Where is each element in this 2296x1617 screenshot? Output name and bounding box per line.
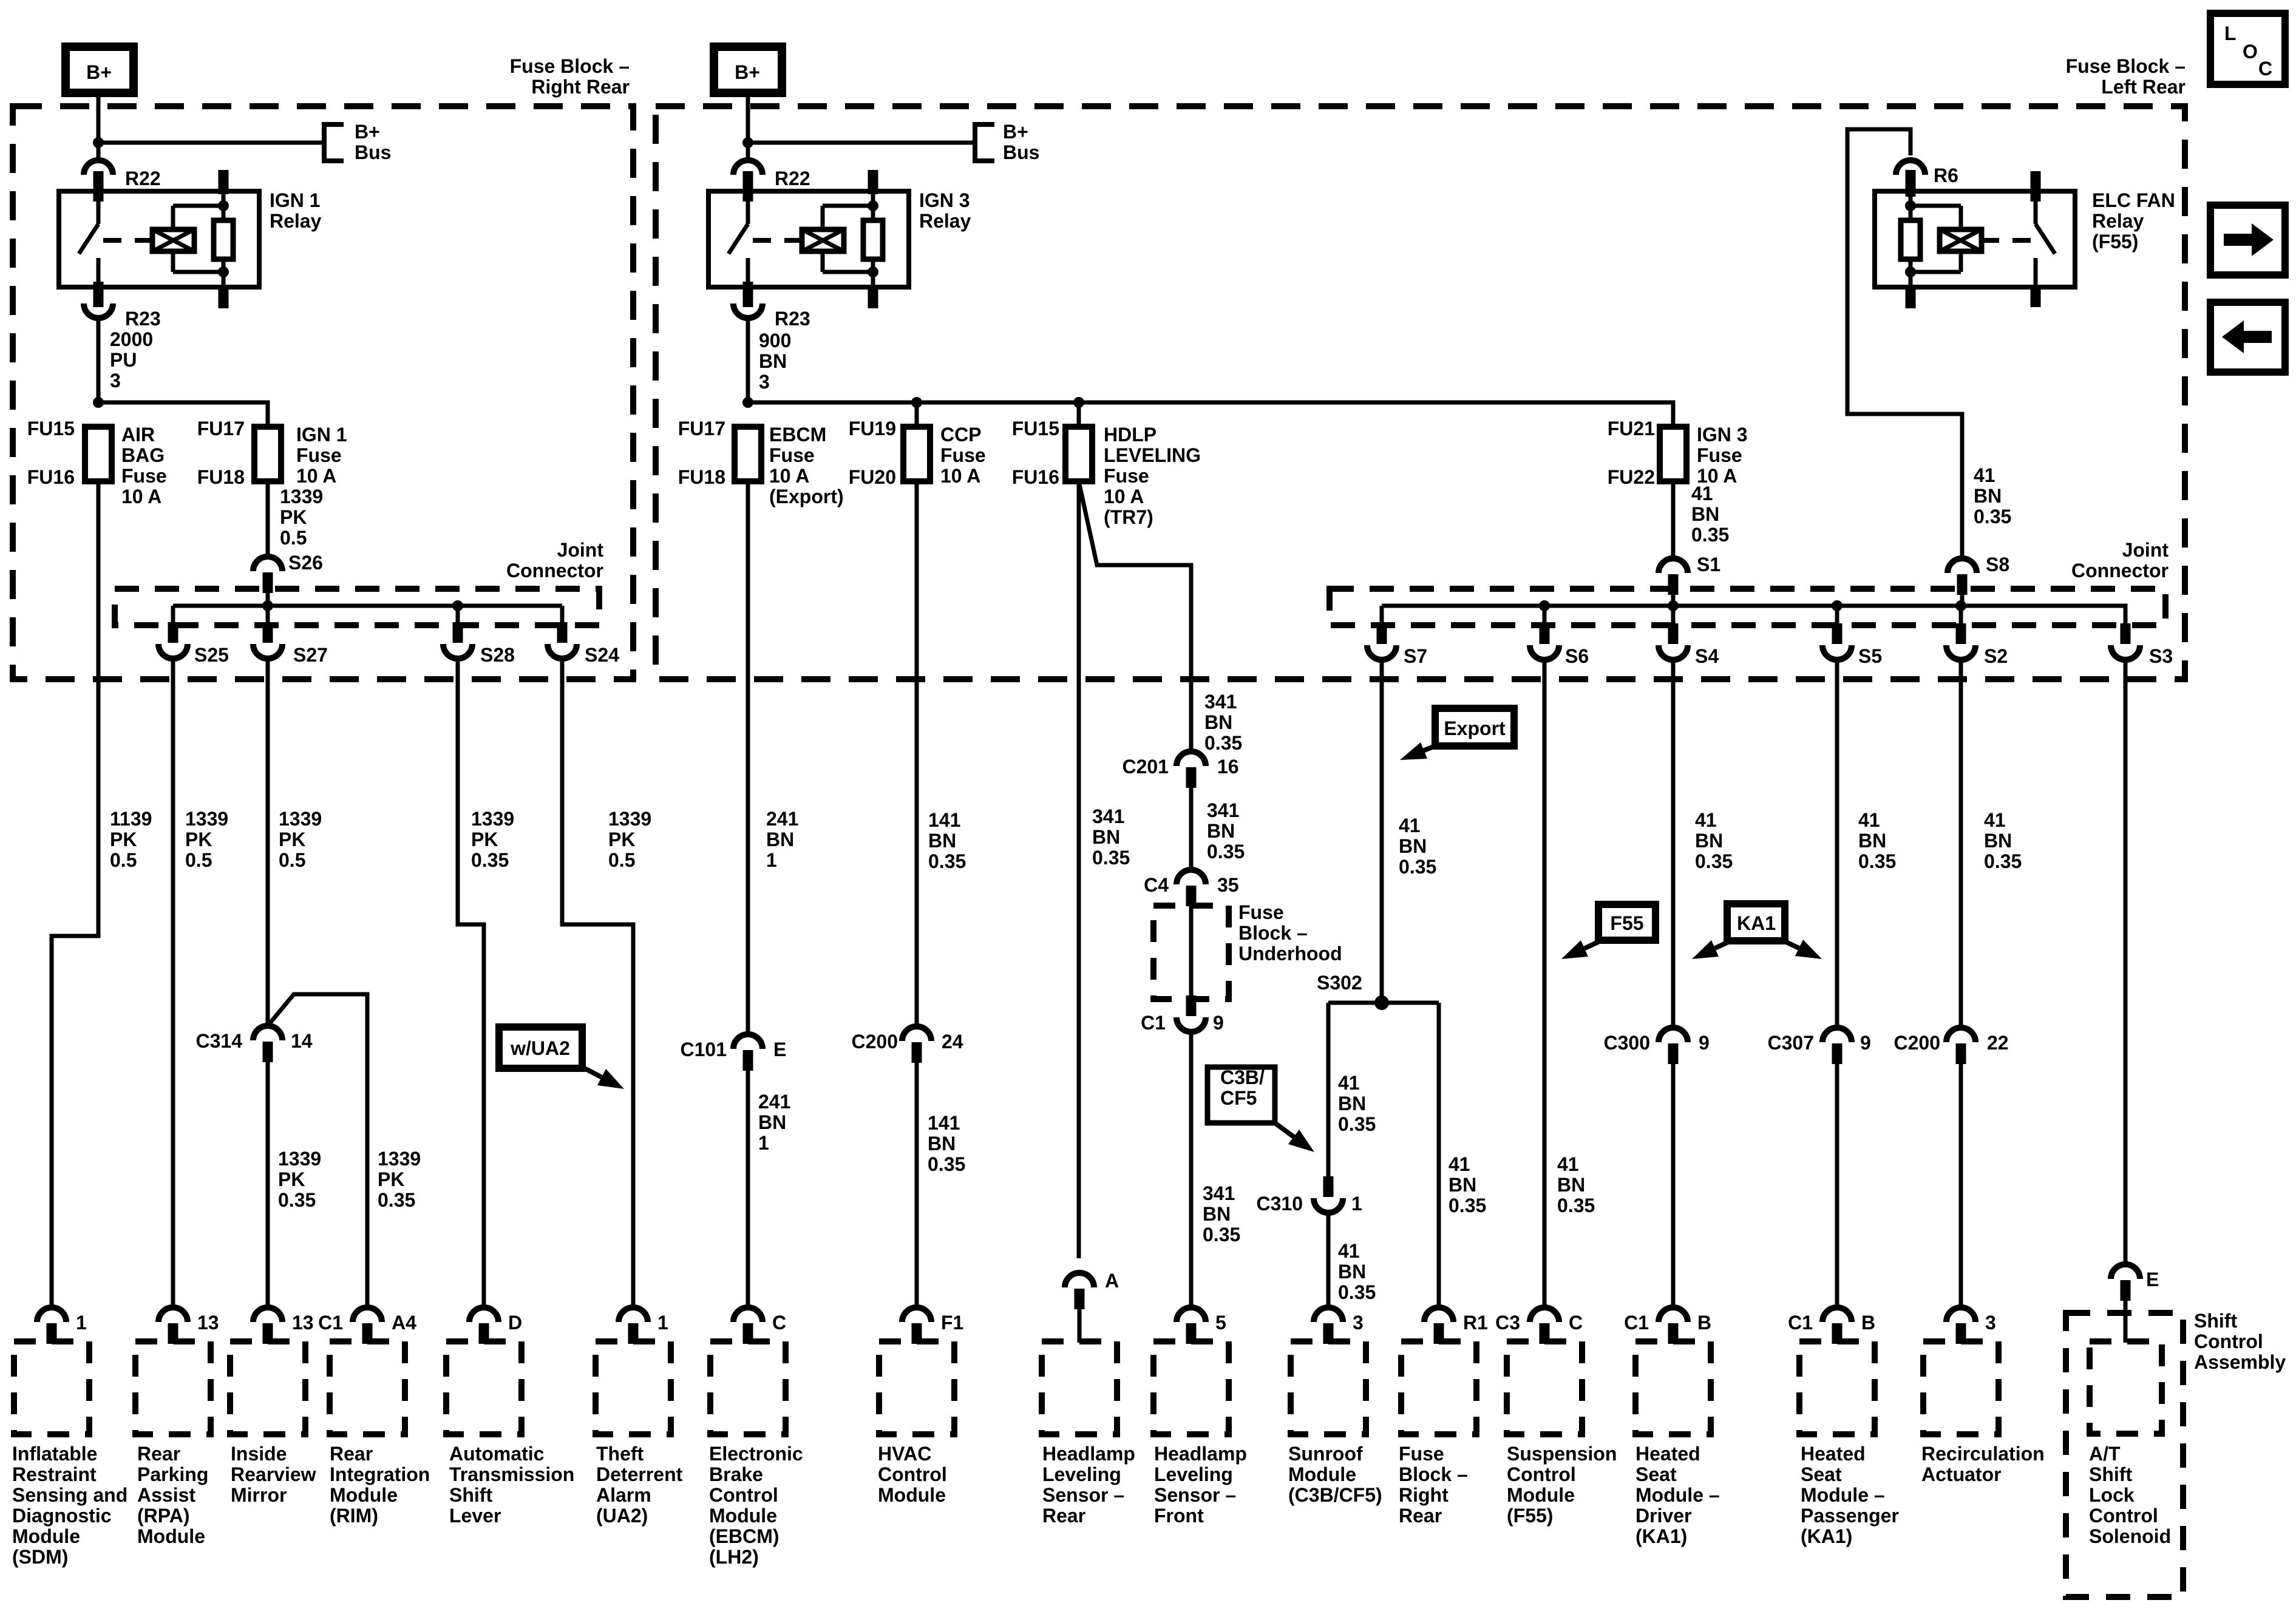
- node B+ bus junction (left rear): [742, 137, 753, 148]
- connector C4 pin 35: [1177, 870, 1206, 884]
- svg-text:BN: BN: [758, 1111, 786, 1133]
- svg-text:1339: 1339: [608, 808, 651, 830]
- joint connector dashed box (right rear): [115, 589, 599, 625]
- svg-text:1339: 1339: [278, 1148, 321, 1170]
- svg-text:900: 900: [759, 330, 791, 351]
- connector S2: [1946, 645, 1975, 660]
- joint connector dashed box (left rear): [1330, 589, 2165, 625]
- svg-text:PK: PK: [279, 829, 305, 850]
- svg-text:B+: B+: [735, 61, 760, 83]
- svg-text:S302: S302: [1317, 972, 1362, 994]
- svg-text:Module: Module: [1288, 1463, 1356, 1485]
- connector S4: [1659, 645, 1688, 660]
- wire S7 to S302: [1380, 660, 1384, 1003]
- svg-text:Shift: Shift: [2194, 1310, 2237, 1332]
- svg-text:0.35: 0.35: [1557, 1195, 1595, 1216]
- svg-text:Seat: Seat: [1635, 1463, 1677, 1485]
- svg-text:PK: PK: [471, 829, 498, 850]
- wire S302 left leg to C310: [1326, 1003, 1331, 1178]
- svg-text:(C3B/CF5): (C3B/CF5): [1288, 1484, 1382, 1506]
- node fuse feed junction (left rear): [742, 397, 753, 408]
- svg-text:O: O: [2243, 41, 2258, 63]
- svg-text:Fuse: Fuse: [1399, 1443, 1444, 1465]
- B+ terminal (left rear): [714, 47, 782, 93]
- wire C300 to heated seat driver: [1671, 1064, 1676, 1307]
- bus wire (right rear joint connector): [173, 604, 562, 608]
- wire S4 to C300: [1671, 660, 1676, 1028]
- svg-text:10 A: 10 A: [296, 465, 336, 487]
- svg-text:B+: B+: [1003, 121, 1028, 143]
- svg-text:Control: Control: [2089, 1505, 2158, 1527]
- svg-text:C101: C101: [681, 1039, 727, 1060]
- svg-text:0.35: 0.35: [278, 1189, 316, 1211]
- wire A to sensor box: [1078, 1309, 1082, 1343]
- fuse FU15/FU16 AIR BAG: [85, 427, 112, 481]
- svg-text:Assist: Assist: [137, 1484, 195, 1506]
- svg-text:S3: S3: [2149, 645, 2173, 667]
- module Suspension Control Module (F55) pin C3 C: [1530, 1307, 1559, 1322]
- svg-text:Joint: Joint: [2122, 539, 2169, 561]
- svg-text:FU17: FU17: [678, 418, 725, 439]
- connector C300 pin 9: [1659, 1028, 1688, 1042]
- svg-text:E: E: [2146, 1269, 2159, 1290]
- wire B+ to R22: [97, 93, 101, 160]
- node feed at HDLP fuse: [1073, 397, 1084, 408]
- wire fuse feed (right rear): [98, 402, 268, 427]
- svg-text:Relay: Relay: [2092, 210, 2144, 232]
- module Fuse Block - Right Rear pin R1: [1424, 1307, 1453, 1322]
- module Rear Parking Assist (RPA) pin 13: [158, 1307, 188, 1322]
- module Theft Deterrent Alarm (UA2) pin 1: [619, 1307, 648, 1322]
- svg-text:S8: S8: [1986, 554, 2009, 575]
- wire S6 to suspension control module: [1543, 660, 1547, 1307]
- wire S302 right leg to fuse block right rear: [1437, 1003, 1441, 1307]
- svg-text:FU16: FU16: [27, 466, 75, 488]
- svg-text:Electronic: Electronic: [709, 1443, 803, 1465]
- svg-text:Integration: Integration: [330, 1463, 430, 1485]
- svg-text:BAG: BAG: [121, 444, 165, 466]
- module Automatic Transmission Shift Lever pin D: [469, 1307, 498, 1322]
- svg-text:0.35: 0.35: [1203, 1224, 1240, 1246]
- svg-text:F55: F55: [1610, 912, 1643, 934]
- svg-text:Passenger: Passenger: [1801, 1505, 1899, 1527]
- svg-text:0.5: 0.5: [279, 849, 305, 871]
- wire C101 to EBCM module: [746, 1071, 750, 1307]
- svg-text:Rear: Rear: [137, 1443, 180, 1465]
- module Recirculation Actuator pin 3: [1946, 1307, 1975, 1322]
- svg-text:Actuator: Actuator: [1921, 1463, 2002, 1485]
- wire S27 stub: [266, 606, 270, 624]
- svg-text:10 A: 10 A: [121, 486, 161, 507]
- svg-text:Connector: Connector: [506, 560, 603, 581]
- svg-text:Sensor –: Sensor –: [1042, 1484, 1124, 1506]
- relay IGN 1: [59, 170, 259, 308]
- svg-text:Brake: Brake: [709, 1463, 763, 1485]
- wire feed stub CCP: [915, 402, 919, 427]
- wire fuse feed (left rear): [748, 402, 1673, 427]
- svg-text:PU: PU: [110, 349, 137, 371]
- svg-text:HDLP: HDLP: [1104, 424, 1156, 446]
- svg-text:13: 13: [292, 1312, 314, 1334]
- svg-text:9: 9: [1699, 1032, 1710, 1054]
- svg-text:C1: C1: [1141, 1012, 1166, 1034]
- node S6 tap: [1539, 600, 1550, 611]
- wire S27 to C314: [266, 659, 270, 1026]
- svg-text:(RPA): (RPA): [137, 1505, 190, 1527]
- svg-text:0.35: 0.35: [1691, 524, 1729, 546]
- connector C101 pin E: [733, 1034, 763, 1049]
- wire S5 to C307: [1835, 660, 1839, 1028]
- wire B+ to R22 (left rear): [746, 93, 750, 160]
- svg-text:0.35: 0.35: [1984, 850, 2022, 872]
- svg-text:9: 9: [1860, 1032, 1871, 1054]
- svg-text:Transmission: Transmission: [449, 1463, 574, 1485]
- svg-text:Deterrent: Deterrent: [596, 1463, 683, 1485]
- svg-text:AIR: AIR: [121, 424, 155, 446]
- svg-text:Relay: Relay: [919, 210, 971, 232]
- svg-text:FU19: FU19: [849, 418, 896, 439]
- svg-text:C300: C300: [1604, 1032, 1651, 1054]
- svg-text:S4: S4: [1695, 645, 1719, 667]
- callout KA1: [1727, 904, 1785, 941]
- svg-text:FU22: FU22: [1608, 466, 1655, 488]
- wire S4 stub: [1671, 606, 1676, 624]
- connector R22 (IGN 3): [733, 160, 763, 175]
- svg-text:S28: S28: [480, 644, 515, 666]
- svg-text:41: 41: [1974, 464, 1995, 486]
- connector C1 pin 9 (underhood): [1177, 1017, 1206, 1032]
- svg-text:41: 41: [1984, 809, 2006, 831]
- svg-text:41: 41: [1691, 483, 1713, 504]
- svg-text:Shift: Shift: [2089, 1463, 2132, 1485]
- B+ Bus terminal (left rear): [975, 124, 994, 161]
- fuse FU17/FU18 IGN 1: [254, 427, 281, 481]
- callout Export: [1435, 708, 1514, 746]
- svg-text:(KA1): (KA1): [1801, 1525, 1852, 1547]
- svg-text:Fuse Block –: Fuse Block –: [2066, 55, 2186, 77]
- svg-text:R23: R23: [125, 308, 161, 330]
- svg-text:0.35: 0.35: [928, 1153, 965, 1175]
- svg-text:1139: 1139: [110, 808, 152, 830]
- callout F55: [1598, 904, 1656, 940]
- wire S26 to bus: [266, 593, 270, 606]
- svg-text:10 A: 10 A: [1104, 486, 1144, 507]
- svg-text:BN: BN: [1203, 1203, 1231, 1225]
- svg-text:1: 1: [1351, 1193, 1362, 1215]
- wire R23 to fuse feed (right rear): [97, 318, 101, 402]
- svg-text:Module –: Module –: [1635, 1484, 1720, 1506]
- svg-text:BN: BN: [766, 829, 794, 850]
- wire feed stub HDLP: [1077, 402, 1081, 427]
- svg-text:Fuse: Fuse: [769, 444, 815, 466]
- svg-text:CCP: CCP: [940, 424, 982, 446]
- svg-text:BN: BN: [1557, 1174, 1585, 1196]
- svg-text:S2: S2: [1984, 645, 2008, 667]
- svg-text:ELC FAN: ELC FAN: [2092, 189, 2175, 211]
- svg-text:(TR7): (TR7): [1104, 506, 1153, 528]
- node S28 tap: [452, 600, 463, 611]
- svg-text:3: 3: [759, 371, 770, 393]
- connector R23 (IGN 1): [84, 303, 113, 318]
- svg-text:41: 41: [1338, 1072, 1360, 1094]
- svg-text:C3B/: C3B/: [1220, 1066, 1265, 1088]
- connector E (shift lock): [2111, 1264, 2140, 1279]
- svg-text:BN: BN: [1858, 830, 1886, 852]
- svg-text:41: 41: [1338, 1240, 1360, 1262]
- svg-text:Fuse: Fuse: [296, 444, 342, 466]
- wire E to solenoid box: [2124, 1301, 2128, 1343]
- svg-text:Lock: Lock: [2089, 1484, 2135, 1506]
- svg-text:341: 341: [1204, 691, 1237, 713]
- svg-text:BN: BN: [1695, 830, 1723, 852]
- svg-text:Underhood: Underhood: [1238, 943, 1342, 964]
- wire CCP fuse to C200: [915, 481, 919, 1026]
- svg-text:41: 41: [1399, 815, 1421, 836]
- svg-text:Control: Control: [878, 1463, 947, 1485]
- wire through underhood fuse block: [1189, 906, 1194, 995]
- svg-text:Bus: Bus: [355, 141, 391, 163]
- svg-text:Control: Control: [1507, 1463, 1576, 1485]
- svg-text:Fuse: Fuse: [940, 444, 986, 466]
- svg-text:S27: S27: [293, 644, 328, 666]
- connector C314 pin 14: [253, 1026, 282, 1040]
- svg-text:EBCM: EBCM: [769, 424, 826, 446]
- fuse block - underhood dashed box: [1153, 906, 1229, 999]
- svg-text:R22: R22: [775, 168, 810, 189]
- wire HDLP fuse to headlamp rear sensor: [1077, 481, 1081, 1258]
- svg-text:BN: BN: [1207, 820, 1235, 842]
- callout w/UA2: [499, 1027, 582, 1068]
- wire to B+ bus (right rear): [98, 141, 324, 145]
- svg-text:41: 41: [1449, 1153, 1470, 1175]
- svg-text:Mirror: Mirror: [231, 1484, 287, 1506]
- svg-text:Diagnostic: Diagnostic: [12, 1505, 112, 1527]
- svg-text:C1: C1: [318, 1312, 343, 1334]
- svg-text:D: D: [508, 1312, 522, 1334]
- svg-text:Automatic: Automatic: [449, 1443, 544, 1465]
- svg-text:1339: 1339: [280, 486, 323, 507]
- svg-text:41: 41: [1858, 809, 1880, 831]
- svg-text:HVAC: HVAC: [878, 1443, 931, 1465]
- callout C3B/CF5: [1207, 1067, 1275, 1123]
- svg-text:(RIM): (RIM): [330, 1505, 378, 1527]
- arrow right box: [2210, 205, 2285, 275]
- svg-text:Suspension: Suspension: [1507, 1443, 1617, 1465]
- wire HDLP branch to C201: [1079, 481, 1191, 751]
- svg-text:Fuse: Fuse: [121, 465, 167, 487]
- svg-text:BN: BN: [759, 350, 787, 372]
- svg-text:141: 141: [928, 809, 960, 831]
- svg-text:24: 24: [942, 1031, 963, 1053]
- svg-text:PK: PK: [110, 829, 137, 850]
- node S27 tap: [262, 600, 273, 611]
- svg-text:S26: S26: [288, 552, 323, 574]
- svg-text:2000: 2000: [110, 328, 153, 350]
- svg-text:(KA1): (KA1): [1635, 1525, 1687, 1547]
- wire to B+ bus (left rear): [748, 141, 975, 145]
- svg-text:35: 35: [1217, 874, 1239, 896]
- module Electronic Brake Control Module (EBCM)(LH2) pin C: [733, 1307, 763, 1322]
- svg-text:BN: BN: [1691, 503, 1719, 525]
- svg-text:Rear: Rear: [1042, 1505, 1085, 1527]
- svg-text:0.5: 0.5: [608, 849, 635, 871]
- svg-text:Leveling: Leveling: [1154, 1463, 1233, 1485]
- svg-text:FU15: FU15: [27, 418, 75, 439]
- module Inflatable Restraint Sensing and Diagnostic Module (SDM) pin 1: [37, 1307, 66, 1322]
- svg-text:S6: S6: [1565, 645, 1589, 667]
- svg-text:0.35: 0.35: [1695, 850, 1733, 872]
- svg-text:Rearview: Rearview: [231, 1463, 316, 1485]
- svg-text:Rear: Rear: [1399, 1505, 1442, 1527]
- svg-text:IGN 3: IGN 3: [919, 189, 970, 211]
- wire S25 to RPA module: [171, 659, 175, 1307]
- wire S7 stub: [1380, 606, 1384, 624]
- svg-text:Block –: Block –: [1399, 1463, 1468, 1485]
- svg-text:Bus: Bus: [1003, 141, 1039, 163]
- connector S28: [443, 644, 472, 659]
- wire C307 to heated seat passenger: [1835, 1064, 1839, 1307]
- svg-text:B+: B+: [86, 61, 112, 83]
- svg-text:FU21: FU21: [1608, 418, 1655, 439]
- svg-text:10 A: 10 A: [940, 465, 980, 487]
- svg-text:C: C: [2258, 58, 2272, 80]
- wire C314 to mirror: [266, 1062, 270, 1307]
- svg-text:Heated: Heated: [1635, 1443, 1700, 1465]
- fuse FU15/FU16 HDLP LEVELING: [1065, 427, 1092, 481]
- svg-text:0.35: 0.35: [928, 850, 966, 872]
- svg-text:A/T: A/T: [2089, 1443, 2121, 1465]
- svg-text:0.35: 0.35: [1338, 1281, 1376, 1303]
- svg-text:BN: BN: [928, 1133, 956, 1154]
- LOC reference box: [2210, 13, 2285, 84]
- svg-text:Block –: Block –: [1238, 922, 1308, 944]
- module Heated Seat Module - Driver (KA1) pin C1 B: [1659, 1307, 1688, 1322]
- svg-text:Front: Front: [1154, 1505, 1204, 1527]
- svg-text:1339: 1339: [378, 1148, 421, 1170]
- svg-text:w/UA2: w/UA2: [510, 1037, 570, 1059]
- svg-text:Inside: Inside: [231, 1443, 287, 1465]
- svg-text:FU20: FU20: [849, 466, 896, 488]
- svg-text:Theft: Theft: [596, 1443, 644, 1465]
- svg-text:Fuse: Fuse: [1104, 465, 1149, 487]
- svg-text:C314: C314: [196, 1030, 243, 1052]
- svg-text:Lever: Lever: [449, 1505, 501, 1527]
- svg-text:0.35: 0.35: [1092, 847, 1130, 869]
- svg-text:R22: R22: [125, 168, 161, 189]
- fuse block - right rear dashed box: [13, 106, 633, 679]
- svg-text:IGN 1: IGN 1: [296, 424, 347, 446]
- wire S2 to C200: [1959, 660, 1963, 1028]
- svg-text:F1: F1: [941, 1312, 963, 1334]
- svg-text:1339: 1339: [279, 808, 322, 830]
- connector S7: [1367, 645, 1396, 660]
- svg-text:BN: BN: [1338, 1261, 1366, 1283]
- wire C201 to C4: [1189, 788, 1194, 870]
- svg-text:(SDM): (SDM): [12, 1546, 68, 1568]
- svg-text:Headlamp: Headlamp: [1042, 1443, 1135, 1465]
- wire C200 to recirculation actuator: [1959, 1064, 1963, 1307]
- svg-text:241: 241: [758, 1091, 790, 1113]
- wire S5 stub: [1835, 606, 1839, 624]
- svg-text:16: 16: [1217, 756, 1239, 778]
- svg-text:CF5: CF5: [1220, 1087, 1257, 1109]
- svg-text:341: 341: [1203, 1182, 1235, 1204]
- module Sunroof Module (C3B/CF5) pin 3: [1314, 1307, 1343, 1322]
- wire SDM drop 1139 PK 0.5: [52, 481, 98, 1307]
- svg-text:Joint: Joint: [557, 539, 604, 561]
- connector A (headlamp leveling sensor - rear): [1065, 1273, 1094, 1287]
- svg-text:Control: Control: [709, 1484, 778, 1506]
- svg-text:Headlamp: Headlamp: [1154, 1443, 1247, 1465]
- connector S24: [548, 644, 577, 659]
- svg-text:Shift: Shift: [449, 1484, 492, 1506]
- svg-text:0.35: 0.35: [378, 1189, 415, 1211]
- module A/T Shift Lock Control Solenoid (shift control assembly): [2066, 1313, 2183, 1597]
- svg-text:Fuse: Fuse: [1697, 444, 1742, 466]
- svg-text:Sensing and: Sensing and: [12, 1484, 127, 1506]
- svg-text:B: B: [1697, 1312, 1711, 1334]
- svg-text:(F55): (F55): [2092, 231, 2138, 253]
- svg-text:0.5: 0.5: [280, 527, 307, 549]
- node S2 tap: [1955, 600, 1966, 611]
- wire C310 to sunroof module: [1326, 1213, 1331, 1307]
- wire IGN1 fuse out to S26: [266, 481, 270, 557]
- connector S25: [158, 644, 188, 659]
- svg-text:Module: Module: [1507, 1484, 1575, 1506]
- svg-text:Export: Export: [1444, 717, 1506, 739]
- fuse block - left rear dashed box: [656, 106, 2185, 679]
- svg-text:PK: PK: [608, 829, 635, 850]
- connector C200 pin 24: [902, 1026, 931, 1041]
- svg-text:Fuse Block –: Fuse Block –: [510, 55, 630, 77]
- connector S8: [1948, 558, 1977, 573]
- fuse FU17/FU18 EBCM: [735, 427, 761, 481]
- svg-text:Relay: Relay: [270, 210, 322, 232]
- module Inside Rearview Mirror pin 13: [253, 1307, 282, 1322]
- bus wire (left rear joint connector): [1382, 606, 2125, 624]
- svg-text:1339: 1339: [471, 808, 514, 830]
- B+ Bus terminal (right rear): [324, 124, 344, 161]
- svg-text:0.35: 0.35: [471, 849, 509, 871]
- svg-text:S24: S24: [585, 644, 619, 666]
- svg-text:C310: C310: [1257, 1193, 1303, 1215]
- svg-text:C: C: [1569, 1312, 1583, 1334]
- svg-text:1: 1: [76, 1312, 87, 1334]
- svg-text:FU16: FU16: [1012, 466, 1059, 488]
- svg-text:Sensor –: Sensor –: [1154, 1484, 1236, 1506]
- svg-text:PK: PK: [278, 1168, 305, 1190]
- svg-text:BN: BN: [1449, 1174, 1476, 1196]
- svg-text:Heated: Heated: [1801, 1443, 1866, 1465]
- svg-text:C1: C1: [1788, 1312, 1813, 1334]
- svg-text:Parking: Parking: [137, 1463, 208, 1485]
- svg-text:C200: C200: [852, 1031, 898, 1053]
- svg-text:Inflatable: Inflatable: [12, 1443, 97, 1465]
- svg-text:FU18: FU18: [197, 466, 245, 488]
- wire S1 to bus: [1671, 595, 1676, 606]
- svg-text:Right Rear: Right Rear: [531, 76, 630, 98]
- svg-text:BN: BN: [1399, 835, 1427, 857]
- wire S8 to bus: [1960, 595, 1965, 606]
- svg-text:0.35: 0.35: [1338, 1113, 1376, 1135]
- wire S3 to shift lock solenoid: [2124, 660, 2128, 1264]
- svg-text:0.35: 0.35: [1207, 841, 1245, 863]
- svg-text:(Export): (Export): [769, 486, 844, 507]
- module Rear Integration Module (RIM) pin C1 A4: [353, 1307, 382, 1322]
- connector S27: [253, 644, 282, 659]
- arrow left box: [2210, 302, 2285, 372]
- B+ terminal (right rear): [66, 47, 134, 93]
